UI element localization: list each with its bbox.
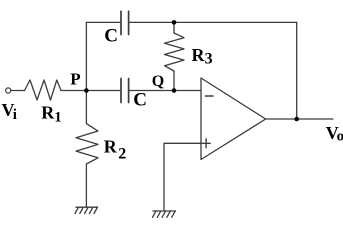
svg-text:R: R xyxy=(104,137,118,157)
wire R1 to node P xyxy=(61,90,86,92)
resistor R2 top lead xyxy=(85,91,87,124)
top junction dot xyxy=(172,20,177,25)
resistor R2 bottom lead xyxy=(85,164,87,207)
wire input to R1 xyxy=(11,90,25,92)
resistor R1 xyxy=(25,80,62,100)
svg-text:Q: Q xyxy=(152,73,164,90)
svg-text:2: 2 xyxy=(118,146,126,163)
wire node P to middle capacitor xyxy=(86,90,121,92)
svg-text:o: o xyxy=(337,129,343,145)
input terminal xyxy=(6,88,11,93)
wire top rail left segment xyxy=(86,21,121,23)
wire node P up to top rail xyxy=(85,22,87,90)
svg-text:C: C xyxy=(133,90,147,111)
capacitor C (middle) plates xyxy=(121,79,129,103)
svg-text:R: R xyxy=(41,103,55,123)
wire right vertical feedback xyxy=(296,22,298,119)
svg-text:1: 1 xyxy=(54,110,62,126)
op-amp minus sign xyxy=(206,95,214,97)
node P junction dot xyxy=(84,88,89,93)
svg-text:R: R xyxy=(192,45,206,65)
wire op-amp output xyxy=(266,118,333,120)
wire node Q to op-amp inverting input xyxy=(174,90,201,92)
capacitor C (top) plates xyxy=(121,11,129,34)
node Q junction dot xyxy=(172,88,177,93)
wire op-amp non-inverting input xyxy=(164,143,201,211)
op-amp plus sign xyxy=(202,139,210,148)
resistor R3 bottom lead xyxy=(173,71,175,91)
resistor R2 xyxy=(76,124,98,164)
svg-text:3: 3 xyxy=(205,51,213,68)
wire top rail right segment xyxy=(129,21,297,23)
wire middle capacitor to node Q xyxy=(129,90,174,92)
ground (below R2) xyxy=(75,207,98,213)
op-amp U1 triangle xyxy=(201,78,266,160)
resistor R3 xyxy=(165,33,185,71)
svg-text:C: C xyxy=(104,26,118,47)
ground (op-amp + input) xyxy=(153,211,176,217)
resistor R3 top lead xyxy=(173,22,175,33)
svg-text:P: P xyxy=(70,69,80,88)
svg-text:i: i xyxy=(13,107,17,123)
output junction dot xyxy=(294,117,299,122)
